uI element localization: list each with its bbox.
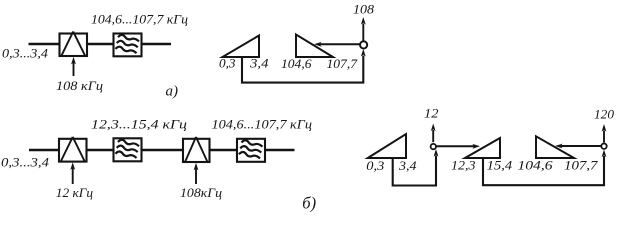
mixer U2 (diagram b): [59, 137, 87, 162]
label 120 (spectrum b): [594, 107, 615, 122]
filter Z3 band-pass (diagram b): [237, 139, 265, 162]
spectrum triangle 104,6-107,7 inverted (diagram a): [296, 35, 333, 58]
wire: between mixer U1 and filter Z1 (diagram a): [87, 43, 113, 46]
svg-text:108кГц: 108кГц: [180, 185, 223, 200]
svg-text:3,4: 3,4: [398, 158, 417, 173]
wire: between mixer U2 and filter Z2 (diagram b): [87, 149, 114, 152]
label LO 12 kHz (diagram b): [56, 185, 94, 200]
label input band 0,3...3,4 (diagram a): [2, 45, 49, 60]
svg-text:104,6: 104,6: [518, 158, 554, 173]
spectrum triangle 104,6-107,7 inverted (diagram b): [536, 136, 574, 158]
wire: carrier arrow up 108 (spectrum a): [361, 17, 366, 41]
svg-text:3,4: 3,4: [249, 56, 269, 71]
wire: arrow from node 108 to inverted band (spectrum a): [314, 42, 360, 47]
mixer U3 (diagram b): [183, 137, 210, 162]
svg-text:0,3: 0,3: [366, 158, 385, 173]
spectrum triangle 12,3-15,4 (diagram b): [465, 138, 500, 158]
label 12 (spectrum b): [424, 106, 439, 121]
label 108 (spectrum a): [353, 2, 375, 17]
wire: arrow from node 120 to inverted band (spectrum b): [555, 144, 601, 149]
label 15,4 (spectrum b): [487, 158, 513, 173]
svg-text:0,3...3,4: 0,3...3,4: [2, 45, 49, 60]
svg-text:107,7: 107,7: [327, 56, 358, 71]
wire: connector from baseband to node 12 (spectrum b): [393, 149, 439, 186]
svg-text:12,3...15,4 кГц: 12,3...15,4 кГц: [91, 117, 188, 132]
svg-text:15,4: 15,4: [487, 158, 513, 173]
wire: output line of diagram b: [265, 149, 295, 152]
label a) caption: [166, 83, 179, 99]
svg-text:0,3...3,4: 0,3...3,4: [1, 155, 50, 170]
wire: output line of diagram a: [142, 43, 172, 46]
wire: input line of diagram b: [29, 149, 60, 152]
svg-text:12: 12: [424, 106, 439, 121]
label LO 108 kHz (diagram a): [56, 78, 104, 93]
spectrum triangle 0,3-3,4 (diagram b): [368, 134, 406, 158]
mixer U1 (diagram a): [60, 32, 88, 56]
svg-text:104,6...107,7 кГц: 104,6...107,7 кГц: [212, 117, 313, 132]
svg-text:107,7: 107,7: [564, 158, 598, 173]
svg-text:0,3: 0,3: [219, 56, 236, 71]
svg-text:108: 108: [353, 2, 375, 17]
svg-text:104,6: 104,6: [281, 56, 312, 71]
label 104,6 (spectrum a): [281, 56, 312, 71]
label passband 12,3...15,4 kHz (diagram b): [91, 117, 188, 132]
svg-text:104,6...107,7 кГц: 104,6...107,7 кГц: [91, 12, 189, 27]
wire: between filter Z2 and mixer U3 (diagram b): [142, 149, 184, 152]
svg-text:а): а): [166, 83, 179, 99]
wire: LO arrow into mixer U1 (diagram a): [71, 57, 76, 76]
node 108 carrier circle (spectrum a): [360, 41, 367, 48]
node 12 carrier circle (spectrum b): [431, 144, 436, 149]
label passband 104,6...107,7 kHz (diagram a): [91, 12, 189, 27]
label b) caption: [302, 194, 316, 213]
label LO 108 kHz (diagram b): [180, 185, 223, 200]
wire: LO arrow into mixer U2 (diagram b): [70, 162, 75, 184]
svg-text:12 кГц: 12 кГц: [56, 185, 94, 200]
label passband 104,6...107,7 kHz (diagram b): [212, 117, 313, 132]
filter Z1 band-pass (diagram a): [114, 34, 142, 57]
label 107,7 (spectrum b right): [564, 158, 598, 173]
svg-text:б): б): [302, 194, 316, 213]
wire: carrier arrow up 12 (spectrum b): [431, 124, 436, 143]
wire: connector from baseband to node 108 (spectrum a): [242, 49, 366, 83]
node 120 carrier circle (spectrum b): [601, 144, 606, 149]
label 0,3 (spectrum a): [219, 56, 236, 71]
wire: input line of diagram a: [29, 43, 61, 46]
svg-text:120: 120: [594, 107, 615, 122]
label 0,3 (spectrum b): [366, 158, 385, 173]
label 3,4 (spectrum a): [249, 56, 269, 71]
label input band 0,3...3,4 (diagram b): [1, 155, 50, 170]
label 3,4 (spectrum b): [398, 158, 417, 173]
svg-text:12,3: 12,3: [451, 158, 476, 173]
svg-text:108 кГц: 108 кГц: [56, 78, 104, 93]
wire: between mixer U3 and filter Z3 (diagram b): [210, 149, 237, 152]
label 104,6 (spectrum b right): [518, 158, 554, 173]
label 107,7 (spectrum a): [327, 56, 358, 71]
wire: connector from band 15,4 to node 120 (spectrum b): [483, 150, 606, 186]
filter Z2 band-pass (diagram b): [114, 138, 142, 161]
wire: LO arrow into mixer U3 (diagram b): [194, 163, 199, 184]
wire: arrow from node 12 to band 12,3-15,4 (spectrum b): [436, 144, 480, 149]
label 12,3 (spectrum b): [451, 158, 476, 173]
wire: carrier arrow up 120 (spectrum b): [602, 124, 607, 143]
spectrum triangle 0,3-3,4 (diagram a): [223, 36, 260, 58]
